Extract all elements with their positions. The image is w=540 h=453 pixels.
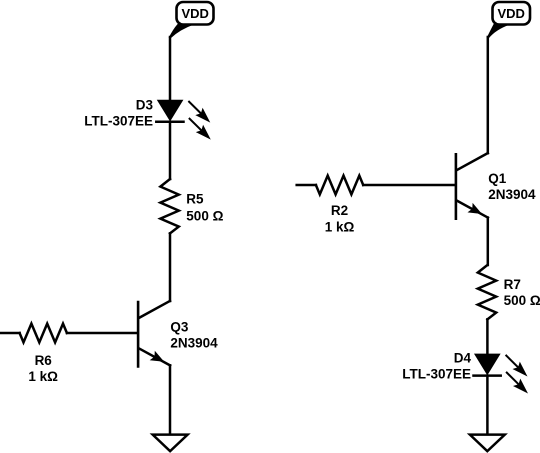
wire Q1 emitter to R7 — [487, 218, 490, 265]
wire R7 to D4 anode — [486, 319, 489, 355]
svg-text:VDD: VDD — [497, 6, 524, 21]
ground (right) — [470, 435, 505, 452]
svg-text:VDD: VDD — [181, 6, 208, 21]
ground (left) — [153, 435, 188, 452]
resistor R2 — [316, 176, 363, 195]
svg-text:D3: D3 — [136, 97, 154, 112]
wire R2 to Q1 base — [363, 184, 455, 187]
power flag VDD (right) — [487, 2, 530, 38]
wire VDD to D3 anode — [169, 37, 172, 101]
wire R5 to Q3 collector — [169, 233, 172, 301]
svg-text:Q3: Q3 — [170, 319, 189, 334]
LED D3 — [156, 101, 211, 140]
resistor R6 — [20, 324, 67, 343]
svg-text:2N3904: 2N3904 — [488, 187, 536, 202]
power flag VDD (left) — [169, 2, 214, 38]
wire input to R2 — [297, 184, 316, 187]
svg-text:500 Ω: 500 Ω — [186, 208, 223, 223]
transistor Q1 — [456, 153, 488, 219]
wire VDD to Q1 collector — [487, 37, 490, 153]
resistor R7 — [478, 265, 496, 319]
wire Q3 emitter to ground — [169, 365, 172, 434]
LED D4 — [474, 354, 529, 393]
svg-text:Q1: Q1 — [488, 171, 507, 186]
resistor R5 — [160, 179, 178, 233]
wire D3 cathode to R5 — [169, 122, 172, 179]
svg-text:R2: R2 — [331, 203, 348, 218]
svg-text:D4: D4 — [454, 350, 472, 365]
wire D4 cathode to ground — [486, 376, 489, 435]
svg-text:1 kΩ: 1 kΩ — [28, 369, 58, 384]
svg-text:LTL-307EE: LTL-307EE — [402, 367, 471, 382]
wire R6 to Q3 base — [67, 332, 137, 335]
svg-text:R5: R5 — [186, 192, 204, 207]
wire input to R6 — [1, 332, 20, 335]
svg-text:LTL-307EE: LTL-307EE — [84, 114, 153, 129]
svg-text:R6: R6 — [35, 353, 53, 368]
svg-text:500 Ω: 500 Ω — [504, 293, 540, 308]
svg-text:2N3904: 2N3904 — [170, 336, 218, 351]
svg-text:R7: R7 — [504, 277, 521, 292]
transistor Q3 — [138, 301, 170, 367]
svg-text:1 kΩ: 1 kΩ — [325, 219, 355, 234]
